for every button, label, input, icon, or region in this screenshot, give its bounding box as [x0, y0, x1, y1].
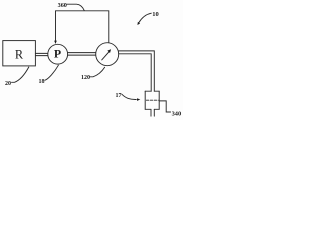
outlet pipe: [150, 109, 152, 116]
meter needle arrow: [102, 51, 110, 60]
pump P: [48, 44, 68, 64]
pipe P to flow meter (double line): [68, 52, 96, 54]
label 18: [39, 65, 59, 85]
control line bracket 360: [56, 11, 109, 44]
reservoir R: [3, 41, 36, 66]
svg-text:120: 120: [81, 75, 90, 81]
label 360: [58, 2, 85, 11]
arrowhead into pump P: [54, 41, 57, 44]
label 120: [81, 67, 105, 81]
flow meter 120: [96, 43, 119, 66]
label 10: [137, 11, 158, 25]
filter element (dashed): [146, 99, 158, 101]
svg-text:17: 17: [116, 93, 122, 99]
filter vessel 340: [145, 91, 159, 116]
svg-text:R: R: [15, 47, 24, 61]
label 340: [159, 101, 181, 118]
svg-text:20: 20: [5, 81, 11, 87]
pipe R to P (double line): [35, 52, 48, 54]
svg-text:340: 340: [172, 111, 182, 118]
svg-text:P: P: [54, 47, 61, 61]
pipe meter to filter, elbow (double line): [119, 51, 155, 91]
svg-text:360: 360: [58, 2, 67, 9]
svg-text:18: 18: [39, 79, 45, 85]
label 17: [116, 93, 141, 101]
label 20: [5, 67, 29, 87]
svg-text:10: 10: [152, 11, 159, 18]
